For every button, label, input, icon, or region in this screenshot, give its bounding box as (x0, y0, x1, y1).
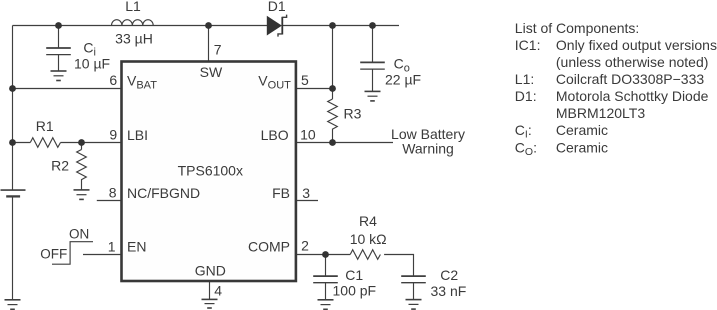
svg-text:8: 8 (109, 185, 117, 201)
svg-text:CI:: CI: (515, 122, 532, 141)
wire LBI row left (13, 142, 31, 144)
svg-text:ON: ON (69, 226, 89, 241)
svg-text:100 pF: 100 pF (333, 283, 377, 299)
wire VBAT pin 6 (13, 88, 122, 90)
ON/OFF step waveform symbol (52, 242, 93, 265)
svg-text:1: 1 (108, 238, 116, 254)
wire NC/FBGND pin 8 stub (97, 200, 122, 202)
svg-text:EN: EN (127, 239, 146, 255)
svg-text:C1: C1 (345, 267, 363, 283)
svg-text:R4: R4 (359, 213, 377, 229)
svg-text:Warning: Warning (402, 141, 454, 157)
svg-text:R3: R3 (344, 106, 362, 122)
ground (Co) (365, 91, 381, 101)
junction dot LBI node (78, 139, 85, 146)
svg-text:9: 9 (109, 126, 117, 142)
wire Co bottom (372, 69, 374, 91)
wire top rail right segment (282, 25, 399, 27)
resistor R3 (328, 99, 338, 129)
svg-text:COMP: COMP (248, 239, 290, 255)
ground (C1) (318, 300, 334, 310)
svg-text:C2: C2 (440, 267, 458, 283)
svg-text:MBRM120LT3: MBRM120LT3 (556, 105, 645, 121)
svg-text:SW: SW (200, 64, 223, 80)
svg-text:Ceramic: Ceramic (556, 140, 608, 156)
svg-text:NC/FBGND: NC/FBGND (127, 185, 200, 201)
svg-text:3: 3 (302, 185, 310, 201)
wire EN pin 1 (83, 254, 122, 256)
junction dot VOUT node (329, 85, 336, 92)
svg-text:R1: R1 (36, 118, 54, 134)
wire left rail upper (12, 26, 14, 191)
svg-text:33 µH: 33 µH (115, 30, 153, 46)
wire GND pin 4 stub (209, 281, 211, 299)
capacitor C1 (313, 276, 338, 283)
wire COMP pin 2 (296, 254, 350, 256)
junction dot top rail at Ci (55, 22, 62, 29)
wire C2 bottom (413, 283, 415, 300)
capacitor C2 (401, 276, 426, 283)
svg-text:5: 5 (301, 72, 309, 88)
junction dot COMP node (322, 251, 329, 258)
svg-text:Low Battery: Low Battery (391, 126, 465, 142)
svg-text:10 kΩ: 10 kΩ (350, 231, 387, 247)
junction dot top rail at SW (205, 22, 212, 29)
svg-text:Ceramic: Ceramic (556, 122, 608, 138)
ground (R2) (74, 190, 90, 200)
svg-text:TPS6100x: TPS6100x (178, 163, 243, 179)
svg-text:2: 2 (301, 238, 309, 254)
svg-text:Motorola Schottky Diode: Motorola Schottky Diode (556, 88, 709, 104)
svg-text:IC1:: IC1: (515, 37, 541, 53)
svg-text:GND: GND (195, 262, 226, 278)
ground (GND pin 4) (202, 299, 218, 308)
wire R2 bottom (81, 179, 83, 190)
capacitor Ci (46, 48, 71, 55)
junction dot left rail R1 (9, 139, 16, 146)
wire C1 bottom (325, 283, 327, 300)
ground (C2) (406, 300, 422, 310)
resistor R4 (350, 250, 380, 260)
junction dot LBO node (329, 139, 336, 146)
svg-text:L1: L1 (125, 0, 141, 14)
svg-text:Only fixed output versions: Only fixed output versions (556, 37, 717, 53)
IC U1 TPS6100x package outline (122, 62, 296, 282)
wire VOUT node to R3 (332, 89, 334, 100)
wire R3 bottom to LBO node (332, 129, 334, 143)
ground (battery) (5, 300, 21, 310)
wire VOUT node to top rail (332, 26, 334, 89)
resistor R2 (77, 150, 87, 180)
svg-text:OFF: OFF (40, 246, 67, 261)
svg-text:22 µF: 22 µF (385, 71, 421, 87)
svg-text:10: 10 (300, 126, 316, 142)
wire LBO pin 10 (296, 142, 333, 144)
svg-text:D1: D1 (268, 0, 286, 14)
wire FB pin 3 stub (296, 200, 318, 202)
svg-text:7: 7 (214, 42, 222, 58)
svg-text:33 nF: 33 nF (431, 283, 467, 299)
resistor R1 (30, 138, 60, 148)
svg-text:List of Components:: List of Components: (515, 20, 640, 36)
wire Co top (372, 26, 374, 63)
wire C1 top (325, 255, 327, 277)
svg-text:4: 4 (214, 283, 222, 299)
svg-text:6: 6 (109, 72, 117, 88)
wire R1 to LBI junction (61, 142, 122, 144)
ground (Ci) (51, 71, 67, 81)
wire SW pin 7 stub (208, 26, 210, 62)
junction dot top rail at VOUT branch (329, 22, 336, 29)
junction dot left rail VBAT (9, 85, 16, 92)
junction dot top rail at Co (369, 22, 376, 29)
battery BT1 (1, 190, 26, 196)
svg-text:(unless otherwise noted): (unless otherwise noted) (556, 54, 709, 70)
wire LBO to Low Battery Warning (333, 142, 394, 144)
svg-text:L1:: L1: (515, 71, 534, 87)
capacitor Co (360, 62, 385, 69)
svg-text:D1:: D1: (515, 88, 537, 104)
svg-text:LBO: LBO (261, 127, 289, 143)
diode D1 (267, 15, 287, 37)
svg-text:Coilcraft DO3308P−333: Coilcraft DO3308P−333 (556, 71, 704, 87)
wire R4 to C2 (384, 255, 413, 277)
svg-text:FB: FB (272, 185, 290, 201)
svg-text:R2: R2 (51, 158, 69, 174)
wire battery to ground (12, 196, 14, 299)
wire Ci top (58, 26, 60, 49)
wire top rail left segment (13, 25, 268, 27)
svg-text:10 µF: 10 µF (74, 55, 110, 71)
wire R2 top (81, 143, 83, 150)
inductor L1 (112, 20, 154, 26)
svg-text:LBI: LBI (127, 127, 148, 143)
wire Ci bottom (58, 55, 60, 71)
wire VOUT pin 5 (296, 88, 333, 90)
